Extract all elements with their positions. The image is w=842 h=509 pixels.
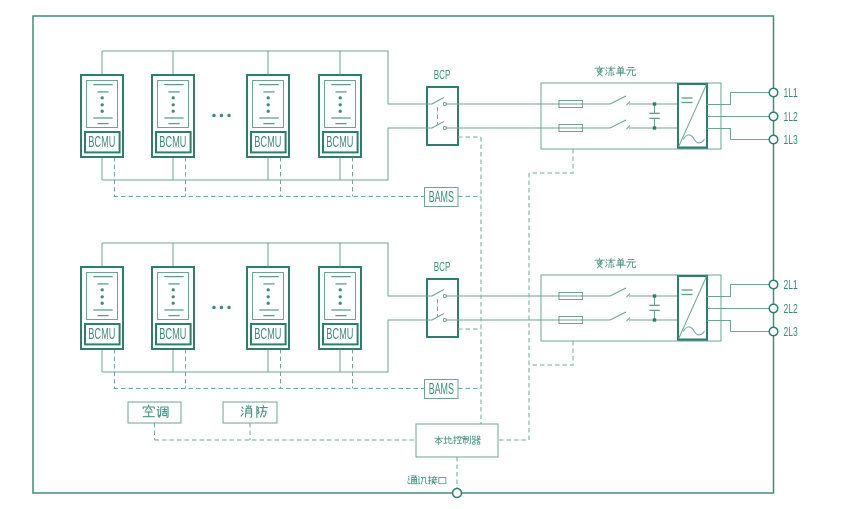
svg-text:1L1: 1L1 xyxy=(784,86,798,100)
svg-text:1L3: 1L3 xyxy=(784,133,798,147)
svg-text:1L2: 1L2 xyxy=(784,110,798,124)
svg-text:2L3: 2L3 xyxy=(784,325,798,339)
svg-text:2L2: 2L2 xyxy=(784,302,798,316)
svg-text:BCP: BCP xyxy=(434,259,451,274)
svg-text:2L1: 2L1 xyxy=(784,278,798,292)
svg-text:BCP: BCP xyxy=(434,67,451,82)
